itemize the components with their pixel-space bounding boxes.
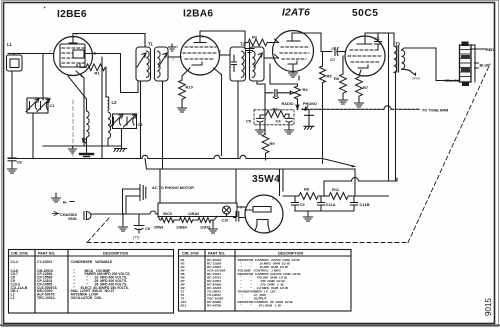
ground gang [69,146,77,153]
wire rail to 35W4 plate [280,169,284,196]
ground motor line [122,214,124,223]
svg-text:TO TONE ARM: TO TONE ARM [422,109,448,113]
tube V3 12AT6 envelope [273,31,314,72]
svg-text:SPKR: SPKR [412,77,421,81]
tube V5 35W4 envelope [245,195,283,233]
AC plug cord [123,189,140,214]
wire R8 to R11 [319,195,329,197]
svg-text:5: 5 [202,35,204,39]
svg-text:R10: R10 [186,85,194,90]
svg-text:(TT): (TT) [133,236,139,240]
IF transformer T2 can A [230,47,246,81]
wire RED [471,48,487,50]
svg-text:GND.: GND. [68,217,78,221]
resistor R9 [264,124,266,134]
svg-text:” ” 47± OHM: ” ” 47± OHM 1 W. [238,304,282,308]
svg-text:C4: C4 [276,119,282,124]
V4 grid dashes [348,50,382,62]
svg-text:R11: R11 [332,187,340,192]
V3 diode plate upper [273,39,279,43]
wire T1 secondary bottom [162,81,164,169]
table right headers [182,252,304,256]
wire plate V1 to T1 [93,54,139,93]
wire V2 plate to T2 [220,54,231,56]
tone arm dashed line [302,108,419,110]
svg-text:1: 1 [272,197,274,201]
svg-text:T1: T1 [148,42,154,47]
wire R1 to L2 [105,67,107,97]
svg-text:R4: R4 [303,87,309,92]
lower rail [145,159,355,197]
svg-text:R7: R7 [363,85,369,90]
T3 core [396,46,398,72]
ground R2 [249,43,251,46]
T1 secondary trimmer [159,53,168,67]
wire osc left to ground [86,137,88,153]
resistor R7 [356,77,363,96]
svg-text:C5: C5 [246,119,252,124]
wire C2 to ground [121,129,123,149]
C3 arrow into R4 [290,91,295,94]
diode return wire [270,64,298,84]
R4 wiper arrow down [296,101,299,109]
speaker connector block [460,42,476,87]
wire rail to heater box left [159,169,161,203]
capacitor C3 [265,90,291,99]
tuning gang C1 trimmers [26,98,50,113]
resistor R5 [320,66,326,83]
wire T3 primary bottom to B+ [394,73,396,182]
volume control R4 [295,84,301,101]
capacitor C11A [318,196,325,211]
svg-text:CONDENSER VARIABLE: CONDENSER VARIABLE [71,260,113,264]
svg-text:C6: C6 [375,36,381,41]
parts table left [9,250,174,314]
svg-text:R1: R1 [95,71,101,76]
resistor R2 [246,42,248,44]
wire V4 grid return R6 [342,56,344,74]
svg-text:PART NO.: PART NO. [38,252,55,256]
V3 cathode [288,61,297,64]
wire V2 cathode to R10 [182,68,190,80]
svg-text:C11A: C11A [326,202,336,207]
ground phono jack hatched [304,126,314,129]
svg-text:PHONO: PHONO [303,102,317,106]
tube V1 grids [62,48,84,63]
wire rail to heater box right [235,169,237,203]
svg-text:9015: 9015 [484,298,493,316]
svg-text:R9: R9 [270,141,276,146]
T2 secondary trimmer [254,53,263,67]
svg-text:L1: L1 [7,42,13,47]
V5 filament [257,220,268,226]
AC plug blades [140,185,146,201]
svg-text:YELLOW: YELLOW [444,79,461,83]
ground C8 [8,166,17,173]
B+ screen vertical [388,33,390,181]
main bus B- [8,155,355,166]
wire loop bottom down [11,71,13,159]
wire V3 plate to C7 [292,33,332,52]
resistor R6 [340,74,347,93]
IF transformer T1 can A [136,47,151,81]
coil L2 [107,97,110,111]
wire V1 cathode down [76,71,84,146]
svg-text:R6: R6 [334,76,340,81]
ground heater [212,220,214,226]
svg-text:50C5: 50C5 [163,212,172,216]
T2 primary coil [242,51,245,77]
svg-text:TRC-10012-: TRC-10012- [37,296,56,300]
svg-text:C7: C7 [330,57,336,62]
table left headers [11,252,129,256]
pilot lamp I1 [223,206,231,214]
wire R11 to B+ vertical [349,195,389,197]
V4 cathode [358,65,368,68]
table left body [11,260,131,300]
junction dot motor [122,213,124,215]
wire T2 to diode [264,57,273,59]
svg-text:C9: C9 [300,202,306,207]
switch node vertical [264,96,266,134]
interlock plug [84,212,91,220]
svg-text:35W4: 35W4 [154,226,163,230]
V3 plate bar [287,40,300,42]
tube V2 cathode bar [192,62,202,65]
wire V2 plate feed top [200,31,245,47]
wire V3 cathode to gnd [292,64,294,70]
capacitor C6 [375,33,382,50]
svg-text:B-: B- [63,200,68,205]
tube V2 top plate bar [194,42,206,44]
T1 primary coil [147,51,150,77]
svg-text:CIR. SYM: CIR. SYM [182,252,198,256]
ground R7 [358,97,360,100]
filter ground bus [295,211,354,214]
capacitor C8 [8,158,16,166]
wire T2 can A bottom to bus [237,81,239,159]
wire BLUE [475,63,479,68]
svg-text:35W4: 35W4 [252,174,280,185]
svg-text:C1-2: C1-2 [11,260,18,264]
capacitor C9 [292,196,299,211]
tube V1 top cap [69,34,77,44]
svg-text:12BE6: 12BE6 [176,226,187,230]
T1 trimmer arrow [137,53,146,67]
wire T3 sec top to speaker [402,48,460,81]
ground C2 hatched [114,149,127,152]
ground filter [304,214,313,221]
node dot [351,165,353,167]
ground C5 [256,127,265,134]
T2 secondary coil [253,51,256,77]
B+ top link [324,178,397,197]
tube V2 grids [183,47,217,59]
T2 internal capacitor [232,55,237,72]
svg-text:C9: C9 [145,226,151,231]
output transformer T3 primary [394,46,397,72]
svg-text:C1: C1 [50,103,56,108]
svg-text:R2: R2 [252,35,258,40]
wire T2 sec bottom to detector [257,81,265,96]
wire T3 sec bottom squiggle [402,69,416,75]
dashed phono outline [87,64,490,243]
svg-text:R11: R11 [181,304,187,308]
ground C4 [285,127,294,134]
oscillator coil right winding [108,112,111,138]
table right body [180,258,302,308]
coil tap arrow [83,139,87,145]
svg-text:AC TO PHONO MOTOR: AC TO PHONO MOTOR [152,186,194,190]
svg-text:12BA6: 12BA6 [188,212,199,216]
svg-text:T2: T2 [240,42,246,47]
switch phono contact [305,106,308,111]
resistor R8 [299,193,318,200]
svg-text:I2AT6: I2AT6 [282,7,310,18]
phono jack [305,109,314,126]
tube V1 inner box [60,44,85,67]
resistor R10 [179,80,186,99]
svg-text:L2: L2 [11,296,15,300]
heater string box [158,203,237,217]
wire C7 to V4 grid [338,51,346,53]
B+ node wire [283,195,299,197]
capacitor C4 [286,114,293,127]
V5 plate box [245,207,271,213]
wire T1 can A bottom to bus [140,81,142,159]
svg-text:I2BE6: I2BE6 [57,9,87,20]
tube V4 50C5 envelope [345,36,385,76]
ground B- [52,195,61,202]
svg-text:1: 1 [176,45,178,49]
svg-text:R8: R8 [304,187,310,192]
heater zigzag row [158,217,217,223]
resistor R1 [80,63,86,67]
svg-text:PART NO.: PART NO. [208,252,225,256]
ground R10 [178,105,187,112]
ground V3 cathode [289,70,298,77]
tube V1 cathode bar [69,65,77,68]
capacitor C11B [351,196,358,211]
svg-text:C11B: C11B [360,202,370,207]
IF transformer T2 can B [250,47,265,81]
trimmer box C2 [113,114,137,129]
gang dash line [72,100,74,157]
V3 diode plate lower [273,55,279,59]
IF transformer T1 can B [155,47,169,81]
svg-text:DESCRIPTION: DESCRIPTION [103,252,129,256]
svg-text:7: 7 [49,50,51,54]
svg-text:CY-10002: CY-10002 [37,260,52,264]
tube V1 12BE6 envelope [54,37,93,76]
V5 pin stubs [255,225,270,231]
wire plate load to bus [322,52,324,164]
svg-text:RED: RED [486,48,494,52]
antenna loop L1 [7,55,23,71]
wire interlock main [91,211,158,214]
wire V4 cathode to R7 [359,70,361,76]
svg-text:DESCRIPTION: DESCRIPTION [278,252,304,256]
V4 plate bar [357,36,372,44]
node junction C1 [42,54,44,101]
resistor R3 [267,111,286,118]
T3 secondary [402,50,405,69]
svg-text:7: 7 [172,58,174,62]
capacitor C7 [335,48,338,56]
svg-text:6: 6 [219,50,221,54]
svg-text:50C5: 50C5 [352,8,378,19]
svg-text:.05: .05 [330,47,335,51]
wire C1 to bus [32,113,34,159]
svg-text:T3: T3 [395,42,401,47]
capacitor C10 [227,212,246,222]
wire antenna to grid [13,54,15,56]
capacitor C5 [257,115,267,127]
svg-text:C10: C10 [222,219,229,223]
wire T1 sec to V2 grid [168,56,181,58]
wire box to V5 [237,206,245,208]
wire V4 plate to T3 [365,33,394,46]
wire volume top to V3 grid region [298,76,300,80]
ground grid shield V2 [169,44,176,51]
svg-text:RC-44700: RC-44700 [207,304,221,308]
svg-text:L2: L2 [112,100,118,105]
svg-text:CIR. SYM.: CIR. SYM. [11,252,28,256]
ground R6 [342,94,344,97]
svg-text:R5: R5 [327,74,333,79]
ground osc coil solid [80,153,93,155]
wire osc right to avc line [107,139,109,147]
wire avc vertical [101,57,103,159]
V3 grid dashes [280,47,309,59]
wire R2 to diode plates [268,42,274,44]
parts table right [179,250,352,312]
switch contact dots [297,108,299,110]
avc return line [43,145,122,147]
wire R10 to ground [181,100,183,105]
svg-text:I2BA6: I2BA6 [183,8,213,19]
svg-text:7: 7 [247,221,249,225]
capacitor C9b motor [134,214,144,233]
svg-text:C8: C8 [17,160,23,165]
oscillator coil left winding [87,111,90,137]
tube V2 12BA6 envelope [181,36,220,75]
resistor R11 [329,193,348,200]
svg-text:OSCILLATOR COIL: OSCILLATOR COIL [71,296,103,300]
wire V2 screen to bus [214,68,222,156]
wire top cap to T1 feed [73,34,145,48]
svg-text:R3: R3 [273,107,279,112]
dashed unit box [254,110,294,125]
T1 secondary coil [158,51,161,77]
svg-text:RADIO: RADIO [282,102,294,106]
speck [44,7,46,9]
